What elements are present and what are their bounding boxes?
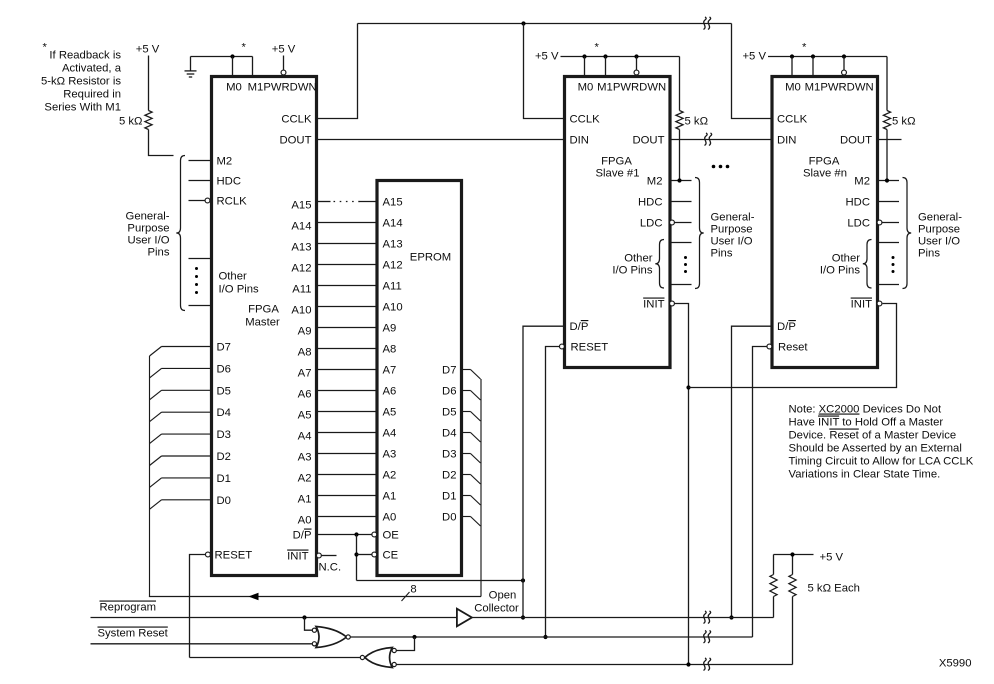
svg-text:5-kΩ Resistor is: 5-kΩ Resistor is — [41, 76, 121, 88]
svg-text:Master: Master — [245, 317, 280, 329]
svg-text:LDC: LDC — [640, 218, 663, 230]
wire Reprogram line — [91, 617, 457, 619]
node OE junction — [354, 532, 358, 536]
svg-text:A6: A6 — [383, 386, 397, 398]
svg-text:D0: D0 — [442, 512, 456, 524]
svg-text:I/O Pins: I/O Pins — [612, 265, 653, 277]
svg-text:Slave #1: Slave #1 — [596, 168, 640, 180]
svg-text:Timing Circuit to Allow for LC: Timing Circuit to Allow for LCA CCLK — [789, 456, 974, 468]
svg-text:D7: D7 — [442, 365, 456, 377]
wire EPROM data bus vertical — [480, 379, 482, 597]
FPGA master U1 box — [212, 77, 317, 576]
ground — [190, 57, 192, 71]
svg-text:Purpose: Purpose — [127, 223, 169, 235]
svg-text:D2: D2 — [217, 451, 231, 463]
svg-text:+5 V: +5 V — [742, 51, 766, 63]
gate U3 input bubble a — [312, 628, 316, 632]
svg-text:Reset: Reset — [778, 342, 808, 354]
svg-text:5 kΩ Each: 5 kΩ Each — [808, 583, 860, 595]
wire data bus bottom run — [149, 596, 481, 598]
svg-text:Pins: Pins — [918, 248, 940, 260]
svg-text:D/P: D/P — [293, 530, 312, 542]
wire CCLK drop to slave1 — [524, 24, 565, 119]
svg-text:M0: M0 — [578, 82, 594, 94]
ellipsis other I/O pins (slave n) — [892, 256, 895, 259]
svg-text:CCLK: CCLK — [777, 114, 808, 126]
svg-text:General-: General- — [918, 212, 962, 224]
svg-text:Other: Other — [624, 253, 652, 265]
svg-text:M2: M2 — [647, 176, 663, 188]
svg-text:RESET: RESET — [215, 550, 253, 562]
wire EPROM data pins to bus — [462, 369, 471, 371]
wire LDC stub (slave n) — [882, 222, 899, 224]
svg-text:D4: D4 — [217, 407, 231, 419]
svg-text:Open: Open — [489, 590, 517, 602]
gate U4 output bubble — [360, 655, 364, 659]
node D/P slave-n to OC line — [729, 615, 733, 619]
svg-text:PWRDWN: PWRDWN — [263, 82, 316, 94]
wire D/P slave1 drop — [523, 326, 565, 617]
wire +5V to resistor R-readback — [148, 56, 150, 111]
wire gate1 output line — [350, 636, 752, 638]
wire HDC stub (slave 1) — [670, 201, 692, 203]
svg-text:M2: M2 — [217, 156, 233, 168]
pin bubble PWRDWN (slave n) — [842, 70, 847, 75]
svg-text:A7: A7 — [298, 368, 312, 380]
gate U4 (INIT gate, OR-shape mirrored) — [365, 648, 393, 668]
wire CE stub — [357, 554, 372, 556]
node M0 (slave n) — [790, 54, 794, 58]
svg-text:Purpose: Purpose — [711, 224, 753, 236]
arrow data bus — [249, 593, 259, 601]
break squiggle DOUT chain — [705, 133, 708, 146]
brace general-purpose I/O (slave 1) — [695, 178, 704, 289]
wire OC output line — [472, 617, 773, 619]
svg-text:5 kΩ: 5 kΩ — [685, 116, 709, 128]
svg-text:DIN: DIN — [570, 135, 589, 147]
node CE junction — [354, 552, 358, 556]
svg-text:D7: D7 — [217, 342, 231, 354]
wire HDC stub (slave n) — [878, 201, 900, 203]
svg-text:5 kΩ: 5 kΩ — [892, 116, 916, 128]
svg-text:HDC: HDC — [846, 197, 870, 209]
wire +5V rail bottom — [774, 554, 814, 556]
svg-text:If Readback is: If Readback is — [49, 50, 121, 62]
wire io stub a (master) — [189, 258, 212, 260]
pin bubble OE — [372, 532, 377, 537]
pin bubble INIT (slave n) — [877, 301, 882, 306]
wire PWRDWN pin (slave 1) — [636, 57, 638, 70]
svg-text:A13: A13 — [291, 242, 311, 254]
svg-text:*: * — [802, 42, 807, 54]
wire INIT N.C. stub — [322, 555, 337, 557]
node PWRDWN (slave n) — [842, 54, 846, 58]
svg-text:M1: M1 — [248, 82, 264, 94]
pin bubble LDC (slave 1) — [670, 220, 675, 225]
wire PWRDWN pin — [283, 56, 285, 70]
wire gate2 input b (INIT line) — [396, 664, 792, 666]
pin bubble INIT (master) — [316, 553, 321, 558]
svg-text:Note: XC2000 Devices Do Not: Note: XC2000 Devices Do Not — [789, 404, 942, 416]
wire M2 stub (slave 1) — [670, 180, 692, 182]
node +5V rail — [790, 552, 794, 556]
wire gate1 input a drop — [305, 618, 313, 631]
svg-text:D/P: D/P — [777, 321, 796, 333]
svg-text:A4: A4 — [383, 428, 397, 440]
svg-text:D/P: D/P — [570, 321, 589, 333]
pin bubble CE — [372, 552, 377, 557]
gate U3 (reset NAND, OR-shape) — [316, 627, 347, 648]
svg-text:5 kΩ: 5 kΩ — [119, 116, 143, 128]
FPGA slave box (slave n) — [772, 77, 878, 368]
svg-text:*: * — [43, 42, 48, 54]
node M1 (slave 1) — [603, 54, 607, 58]
gate U4 input bubble b — [392, 662, 396, 666]
brace general-purpose I/O (slave n) — [903, 178, 912, 289]
wire M0 pin (slave 1) — [584, 57, 586, 77]
svg-text:M1: M1 — [597, 82, 613, 94]
svg-text:A0: A0 — [383, 512, 397, 524]
svg-text:DOUT: DOUT — [840, 135, 872, 147]
svg-text:A2: A2 — [298, 473, 312, 485]
svg-text:8: 8 — [410, 584, 416, 596]
svg-text:A8: A8 — [298, 347, 312, 359]
node INIT line join — [686, 662, 690, 666]
svg-text:X5990: X5990 — [939, 658, 972, 670]
svg-text:A10: A10 — [383, 302, 403, 314]
svg-text:A2: A2 — [383, 470, 397, 482]
break squiggle OC line — [704, 611, 707, 624]
svg-text:Other: Other — [219, 271, 247, 283]
svg-text:Should be Asserted by an Exter: Should be Asserted by an External — [789, 443, 962, 455]
node PWRDWN (slave 1) — [634, 54, 638, 58]
svg-text:CCLK: CCLK — [281, 114, 312, 126]
svg-text:PWRDWN: PWRDWN — [820, 82, 873, 94]
svg-text:Pins: Pins — [148, 247, 170, 259]
svg-text:A9: A9 — [383, 323, 397, 335]
svg-text:HDC: HDC — [638, 197, 662, 209]
svg-text:A0: A0 — [298, 515, 312, 527]
svg-text:Device. Reset of a Master Devi: Device. Reset of a Master Device — [789, 430, 957, 442]
node RESET slave1 join — [543, 635, 547, 639]
svg-text:A7: A7 — [383, 365, 397, 377]
svg-text:FPGA: FPGA — [809, 156, 840, 168]
wire gate2 input a — [396, 637, 414, 651]
wire ground to M0/M1 — [191, 56, 253, 58]
svg-text:M0: M0 — [785, 82, 801, 94]
svg-text:M1: M1 — [805, 82, 821, 94]
node M0 (slave 1) — [582, 54, 586, 58]
svg-text:DOUT: DOUT — [632, 135, 664, 147]
svg-text:*: * — [242, 42, 247, 54]
svg-text:+5 V: +5 V — [535, 51, 559, 63]
svg-text:A3: A3 — [383, 449, 397, 461]
svg-text:A14: A14 — [383, 218, 403, 230]
svg-text:Other: Other — [832, 253, 860, 265]
svg-text:A1: A1 — [383, 491, 397, 503]
break squiggle reset line — [704, 631, 707, 644]
svg-text:I/O Pins: I/O Pins — [820, 265, 861, 277]
svg-text:A3: A3 — [298, 452, 312, 464]
node D/P slave1 to OC line — [521, 615, 525, 619]
svg-text:A15: A15 — [291, 200, 311, 212]
svg-text:A8: A8 — [383, 344, 397, 356]
svg-text:Purpose: Purpose — [918, 224, 960, 236]
svg-text:M0: M0 — [226, 82, 242, 94]
wire INIT slave-n down — [689, 304, 897, 388]
svg-text:FPGA: FPGA — [601, 156, 632, 168]
svg-text:D5: D5 — [442, 407, 456, 419]
wire io stub a (slave n) — [878, 242, 900, 244]
ellipsis other I/O pins (master) — [195, 267, 198, 270]
gate U4 input bubble a — [392, 648, 396, 652]
wire RESET slave-n drop — [753, 347, 767, 638]
resistor 5 kOhm pullup (slave n) — [886, 57, 888, 111]
svg-text:INIT: INIT — [287, 551, 308, 563]
wire data pins D7-D0 to bus (master) — [162, 346, 212, 348]
node M2 pullup (slave 1) — [677, 178, 681, 182]
svg-text:A10: A10 — [291, 305, 311, 317]
wire io stub b (slave n) — [878, 284, 900, 286]
svg-text:User I/O: User I/O — [127, 235, 169, 247]
ellipsis other I/O pins (slave 1) — [684, 256, 687, 259]
svg-text:Pins: Pins — [711, 248, 733, 260]
svg-text:System Reset: System Reset — [98, 628, 169, 640]
wire D/P slave-n drop — [732, 326, 773, 617]
pin bubble RESET (master) — [205, 552, 210, 557]
svg-text:A9: A9 — [298, 326, 312, 338]
wire address bus A15-A0 — [317, 201, 331, 203]
svg-text:A14: A14 — [291, 221, 311, 233]
svg-text:DIN: DIN — [777, 135, 796, 147]
svg-text:General-: General- — [711, 212, 755, 224]
wire D/P master to OE — [317, 534, 372, 536]
wire RESET master to gate — [190, 555, 206, 658]
svg-text:PWRDWN: PWRDWN — [613, 82, 666, 94]
svg-text:A13: A13 — [383, 239, 403, 251]
break squiggle CCLK rail — [704, 17, 707, 30]
wire CCLK top rail — [358, 23, 732, 25]
svg-text:I/O Pins: I/O Pins — [219, 284, 260, 296]
brace other I/O pins (slave n) — [863, 240, 872, 289]
svg-text:LDC: LDC — [847, 218, 870, 230]
wire M2 stub (master) — [189, 160, 212, 162]
svg-text:A11: A11 — [292, 284, 311, 296]
svg-text:A6: A6 — [298, 389, 312, 401]
svg-text:Activated, a: Activated, a — [62, 63, 122, 75]
EPROM U2 box — [377, 181, 462, 576]
node M1 (slave n) — [811, 54, 815, 58]
svg-text:Slave #n: Slave #n — [803, 168, 847, 180]
svg-text:CCLK: CCLK — [570, 114, 601, 126]
gate U3 input bubble b — [312, 642, 316, 646]
wire resistor to I/O brace — [149, 130, 174, 156]
node INIT tie — [686, 385, 690, 389]
pin bubble LDC (slave n) — [877, 220, 882, 225]
wire CCLK master to top rail — [317, 24, 358, 119]
svg-text:FPGA: FPGA — [248, 304, 279, 316]
wire M0 pin (slave n) — [791, 57, 793, 77]
node gate1 out to gate2 — [412, 635, 416, 639]
wire RCLK stub (master) — [189, 200, 205, 202]
svg-text:D5: D5 — [217, 385, 231, 397]
wire System Reset line — [91, 643, 313, 645]
svg-text:N.C.: N.C. — [319, 562, 342, 574]
wire INIT slave1 down — [675, 304, 689, 665]
svg-text:A4: A4 — [298, 431, 312, 443]
svg-text:CE: CE — [383, 550, 399, 562]
svg-text:RCLK: RCLK — [217, 196, 248, 208]
wire HDC stub (master) — [189, 180, 212, 182]
svg-text:D6: D6 — [442, 386, 456, 398]
node Reprogram to gate1 — [302, 615, 306, 619]
bus width slash — [402, 592, 410, 601]
svg-text:*: * — [595, 42, 600, 54]
wire DOUT slave1 to DIN slave-n — [670, 139, 772, 141]
svg-text:DOUT: DOUT — [279, 135, 311, 147]
FPGA slave box (slave 1) — [565, 77, 671, 368]
buffer U5 open collector — [457, 609, 472, 627]
ellipsis between slaves — [712, 165, 716, 169]
wire io stub b (master) — [189, 305, 212, 307]
wire D/P down-right to slave net — [357, 580, 524, 582]
brace other I/O pins (slave 1) — [655, 240, 664, 289]
wire PWRDWN pin (slave n) — [843, 57, 845, 70]
svg-text:General-: General- — [126, 211, 170, 223]
pin bubble RESET (slave1) — [559, 344, 564, 349]
svg-text:D0: D0 — [217, 495, 231, 507]
pin bubble RCLK — [205, 198, 210, 203]
node D/P join slave1 drop — [521, 578, 525, 582]
resistor 5 kOhm (readback, series with M1) — [145, 111, 152, 130]
svg-text:User I/O: User I/O — [918, 236, 960, 248]
pin bubble RESET (slave-n) — [767, 344, 772, 349]
svg-text:RESET: RESET — [571, 342, 609, 354]
resistor 5 kOhm pullup (slave 1) — [679, 57, 681, 111]
svg-text:OE: OE — [383, 530, 400, 542]
wire data bus vertical (master) — [149, 356, 151, 597]
svg-text:A12: A12 — [383, 260, 403, 272]
wire RESET slave1 drop — [546, 347, 560, 638]
pin bubble PWRDWN (master) — [281, 70, 286, 75]
node M0 junction — [230, 54, 234, 58]
wire DOUT master to DIN slave1 — [317, 139, 565, 141]
svg-text:A5: A5 — [383, 407, 397, 419]
svg-text:Have INIT to Hold Off a Master: Have INIT to Hold Off a Master — [789, 417, 944, 429]
svg-text:User I/O: User I/O — [711, 236, 753, 248]
wire io stub a (slave 1) — [670, 242, 692, 244]
wire OE-CE vertical — [356, 535, 358, 581]
wire io stub b (slave 1) — [670, 284, 692, 286]
svg-text:Required in: Required in — [63, 89, 121, 101]
pin bubble INIT (slave 1) — [670, 301, 675, 306]
wire M1 pin (slave 1) — [605, 57, 607, 77]
svg-text:INIT: INIT — [643, 299, 664, 311]
node CCLK branch slave1 — [521, 21, 525, 25]
resistor R-pullup DP line — [773, 597, 775, 618]
svg-text:Collector: Collector — [474, 603, 519, 615]
svg-text:+5 V: +5 V — [272, 44, 296, 56]
svg-text:D2: D2 — [442, 470, 456, 482]
svg-text:A1: A1 — [298, 494, 312, 506]
wire M2 stub (slave n) — [878, 180, 900, 182]
svg-text:INIT: INIT — [851, 299, 872, 311]
node M2 pullup (slave n) — [885, 178, 889, 182]
svg-text:M2: M2 — [854, 176, 870, 188]
svg-text:A15: A15 — [383, 197, 403, 209]
wire DOUT slave-n tail — [878, 139, 902, 141]
svg-text:EPROM: EPROM — [410, 252, 451, 264]
gate U3 output bubble — [346, 635, 350, 639]
pin bubble PWRDWN (slave 1) — [634, 70, 639, 75]
brace general-purpose I/O (master) — [176, 156, 185, 311]
svg-text:+5 V: +5 V — [820, 552, 844, 564]
svg-text:Reprogram: Reprogram — [100, 602, 157, 614]
svg-text:D6: D6 — [217, 363, 231, 375]
resistor R-pullup INIT line — [792, 597, 794, 665]
wire M1 pin (slave n) — [812, 57, 814, 77]
svg-text:D3: D3 — [442, 449, 456, 461]
svg-text:Variations in Clear State Time: Variations in Clear State Time. — [789, 469, 941, 481]
svg-text:D4: D4 — [442, 428, 456, 440]
svg-text:A12: A12 — [291, 263, 311, 275]
svg-text:Series With M1: Series With M1 — [44, 102, 121, 114]
wire M1 pin — [252, 57, 254, 77]
wire CCLK drop to slave-n — [732, 24, 772, 119]
svg-text:D1: D1 — [217, 473, 231, 485]
svg-text:HDC: HDC — [217, 176, 241, 188]
wire M0 pin — [232, 57, 234, 77]
break squiggle INIT line — [704, 658, 707, 671]
svg-text:A5: A5 — [298, 410, 312, 422]
svg-text:D1: D1 — [442, 491, 456, 503]
svg-text:D3: D3 — [217, 429, 231, 441]
wire gate2 output to master RESET — [190, 657, 361, 659]
svg-text:+5 V: +5 V — [136, 44, 160, 56]
svg-text:A11: A11 — [383, 281, 402, 293]
wire LDC stub (slave 1) — [675, 222, 692, 224]
